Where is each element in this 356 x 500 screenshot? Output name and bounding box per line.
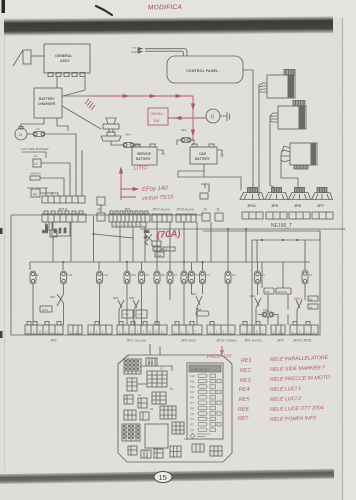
JP17 strip [152,214,172,222]
ammeter circle [15,127,27,141]
svg-text:15: 15 [159,473,167,482]
fusebox tiny labels [126,356,209,442]
bus drops from strips [71,222,246,262]
page number ellipse [154,472,172,483]
IC box [33,159,70,196]
JP5b strip [68,325,82,334]
wires right box [262,262,288,325]
label +12V SIDE MARKER [0,0,1,1]
fuse F7 [167,262,173,300]
component name and connector labels [19,46,324,229]
CAR BATTERY box [190,144,217,164]
left edge scan dash A [0,228,3,234]
J2 drop wire with junction [92,216,133,262]
roof unit 3 [281,143,317,188]
roof unit 2 [270,101,306,193]
fuse row [30,262,318,325]
TO CAR arrows [138,48,187,57]
RE1 relay symbol [144,234,175,257]
top scanner band [4,16,333,36]
wire 1A to JP13 [50,134,76,196]
J2 boxes [97,197,105,221]
relay RE2 switch [196,296,209,325]
bottom connector strips [25,322,318,335]
JP1 lower pin comb [112,222,146,227]
JP5 strip [25,322,63,335]
wire stubs into fusebox [150,344,160,355]
bottom scanner band [0,469,334,484]
xenon 10A boxes [264,288,291,294]
wire charger to bus [62,95,93,97]
fuse F9 [139,262,145,325]
rotated pin labels under JP13 [43,224,68,233]
relay block b2 [141,450,151,458]
connector block L big empty [145,424,168,448]
GENERAL assy box [44,44,90,77]
red hatch on charger wire [85,99,95,110]
connector block E [152,392,166,404]
fuse F11 [97,271,103,325]
wire car battery bottom to right [178,164,241,190]
fuse F10 [124,262,130,325]
junction dots [62,228,298,263]
red inverter box [148,108,168,125]
wire general to charger [56,77,58,88]
JP13 sub box [46,222,70,236]
JP3 strip [172,322,202,335]
xenon connector [30,176,64,196]
relay block b5 right [210,446,222,456]
relay RE6 switch [118,300,124,325]
light boxes under RE5 RE6 [122,310,147,318]
wires into JP13 [46,150,82,196]
block right of table bottom [192,444,204,452]
relay RE3 switch right [296,295,318,325]
CONTROL PANEL box [167,56,243,83]
roof unit 1 [259,70,295,196]
connector block C grid [147,371,167,387]
bottom strip labels [34,248,313,343]
relay RE7 switch [40,294,64,325]
battery isolator jack symbol [101,118,121,141]
fuse 0.5A horizontal [258,312,278,325]
JP12 strip [207,322,235,335]
connector block D [127,378,137,391]
connector block M [172,422,184,434]
SERVICE BATTERY box [132,144,157,165]
JP14 JP15 strip [290,322,318,335]
connector block JP10 label box [146,358,157,366]
trapezoid connector JP7 [312,188,333,200]
left page furrow line [4,34,6,470]
service battery + terminal arrow [158,150,165,154]
connector block A dotgrid [124,359,141,374]
fuse box layout drawing [118,344,232,462]
red PRESA 12V annotation [207,346,233,359]
JP2 strip [117,322,167,335]
relay block b1 [128,446,137,455]
big lower box [11,215,345,335]
trapezoid connector JP11 [240,188,264,200]
fuse F4 [200,262,206,294]
relay block b3 [154,449,163,458]
J3 J1 small boxes [202,213,223,221]
generator circle G [206,109,230,123]
fuse 1A [27,132,50,137]
trapezoid connector JP9 [265,188,288,200]
wire stub [137,366,172,384]
left edge scan dash B [0,331,3,338]
fuse F12 [30,271,36,325]
connector block J [140,412,149,420]
connector bracket near battery drop [200,184,209,199]
wire charger bottom down [21,118,44,127]
JP13 upper strip [42,196,85,203]
pen stroke annotation top [96,6,112,15]
vertical from bus down on right [257,240,305,270]
relay block b4 [170,446,181,457]
legend table [187,363,223,439]
connector block H [160,406,176,419]
fuse F3 [225,262,231,325]
inner right box [252,231,320,335]
JP6 strip [271,325,285,334]
fuse F13 [61,271,67,294]
component on drop at x53 [50,222,57,262]
fuse F1 [302,270,308,295]
connector block G [138,398,147,408]
JP1 strip [109,211,150,222]
red wire vertical down to battery [192,96,194,141]
fuse F6 [181,262,187,325]
red vertical annotation arrow near batteries [121,172,138,200]
legend table fuse rows [190,374,221,438]
wire panel right to JP11 drop [243,70,253,190]
JP13 lower strip [42,211,86,222]
JP16 strip [176,214,196,222]
fuse box outline [118,355,232,462]
JP4 strip [240,322,266,335]
main bus line [30,261,310,263]
red wire horizontal top [93,95,193,97]
relay RE5 switch [133,300,139,325]
car battery - ground arrow [217,150,224,157]
lower strips under JP11 JP9 JP8 JP7 [242,212,333,219]
side marker box [31,189,58,197]
wire jack to service battery [111,141,123,145]
trapezoid connector JP8 [289,188,311,200]
connector block K dotgrid [122,424,140,441]
fuse F8 [154,262,160,325]
black corner mark top-left [2,0,6,13]
red relay legend list [238,355,330,423]
wire general right down [63,77,85,96]
fuse 40A service [123,143,140,148]
fuse F2 [255,262,261,295]
JP5c strip [88,322,112,335]
horn symbol [13,50,44,66]
BATTERY CHARGER box [34,88,62,118]
fuse 40A car [177,138,194,146]
relay RE4 switch [255,298,261,325]
strip pin numbers [27,332,315,334]
fuse F5 [189,262,195,294]
connector block F [124,395,133,404]
red wire to inverter box and G [168,117,206,119]
connector block I [124,410,136,420]
